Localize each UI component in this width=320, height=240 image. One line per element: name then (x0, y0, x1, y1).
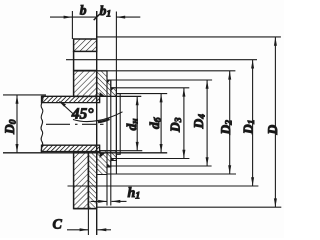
bore end face top (99, 96, 101, 102)
hub bottom wall (42, 145, 100, 151)
extension line D top (97, 36, 281, 38)
extension line b1 right (115, 12, 117, 175)
sleeve ring edge (116, 94, 120, 155)
svg-text:b: b (80, 3, 87, 18)
dimension b (50, 14, 100, 20)
vertical edge line E1 (106, 71, 108, 206)
stepped rings lower section (97, 151, 117, 175)
vertical edge line E2 (110, 80, 112, 206)
disc window top (74, 51, 97, 70)
dimension db (160, 94, 163, 153)
svg-text:C: C (53, 218, 63, 233)
dimension D4 (206, 80, 209, 166)
extension line D0 top (3, 94, 46, 96)
svg-text:D: D (265, 125, 280, 136)
stepped rings upper section (97, 71, 117, 97)
extension line D2 top (97, 70, 236, 72)
extension line b/b1 shared top (96, 11, 98, 39)
dimension D0 (16, 95, 19, 153)
chamfer leader 45 (58, 100, 122, 122)
svg-text:45°: 45° (71, 106, 95, 123)
hub outer top line (42, 95, 142, 97)
extension line D3 top (111, 87, 190, 89)
rim section bottom edge (74, 208, 97, 210)
extension line C left (87, 153, 89, 235)
weld seam marks (100, 80, 115, 167)
extension line D bottom (97, 206, 282, 208)
dimension b1 (116, 16, 140, 19)
extension line D1 top (hole axis) (66, 59, 257, 61)
extension line D2 bottom (107, 173, 236, 175)
bore end face bottom (99, 145, 101, 151)
dimension C (67, 228, 111, 231)
disc upper section (74, 71, 97, 97)
hub outer bottom line (3, 152, 167, 154)
extension line D3 bottom (111, 158, 190, 160)
extension line D4 bottom (107, 165, 212, 167)
hub break line (41, 96, 43, 152)
dimension dn (136, 96, 139, 150)
bore centerline (46, 123, 104, 125)
extension line D4 top (107, 79, 212, 81)
dimension D2 (228, 71, 231, 174)
rim section top (74, 39, 97, 51)
dimension D (274, 37, 277, 207)
clamp plate lower section (88, 153, 96, 209)
dimension D3 (182, 88, 185, 159)
hub seat bottom line (100, 150, 143, 152)
dimension D1 (251, 60, 254, 186)
disc lower section left (74, 153, 89, 209)
extension line D1 bottom (hole axis) (68, 185, 259, 187)
bar right edge full (96, 11, 98, 235)
hub top wall (42, 96, 100, 102)
extension line b left (71, 11, 73, 39)
dimension h1 (91, 200, 127, 203)
extension line db top (116, 93, 167, 95)
